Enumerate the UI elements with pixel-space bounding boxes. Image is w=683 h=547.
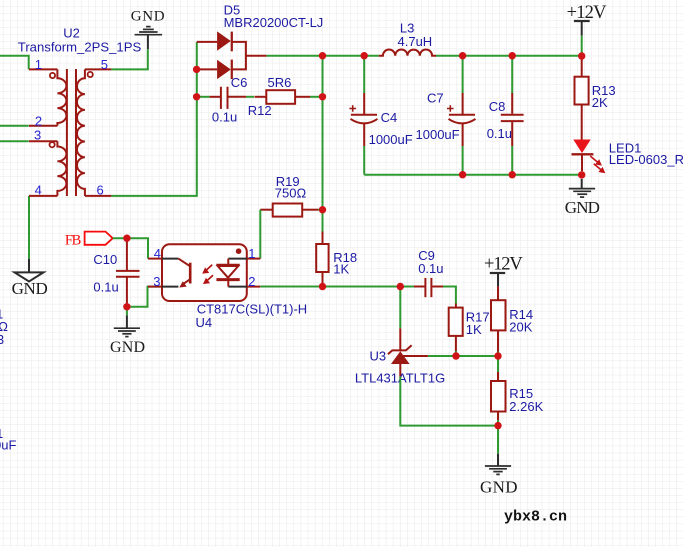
net label FB: [65, 232, 113, 249]
C9 reference label: [418, 248, 435, 263]
svg-text:LED-0603_RD: LED-0603_RD: [609, 152, 683, 167]
junction rail/C6 branch: [319, 52, 326, 59]
wire C8 bottom: [511, 146, 513, 175]
R14 reference label: [509, 307, 533, 322]
transformer U2: [29, 69, 111, 196]
U4 pin 1 dot: [236, 248, 242, 254]
wire R18 bottom: [322, 283, 324, 286]
svg-text:R12: R12: [248, 103, 272, 118]
R12 value label: [268, 75, 292, 90]
LED1 reference label: [609, 140, 642, 155]
capacitor C7 (polarized): [447, 93, 476, 146]
edge fragment label 10uF: [0, 438, 16, 453]
power +12V (top): [567, 3, 608, 36]
U2 pin 2 lead: [29, 125, 57, 127]
svg-text:FB: FB: [65, 233, 81, 249]
wire FB to U4 pin 4: [113, 238, 148, 258]
resistor R18: [316, 232, 328, 284]
resistor R15: [491, 356, 506, 426]
svg-text:3: 3: [34, 128, 41, 143]
svg-text:3: 3: [153, 274, 160, 289]
wire U2 pin 5 to ground: [111, 49, 147, 69]
U2 pin 5 lead: [85, 68, 112, 70]
wire bottom rail: [364, 174, 582, 176]
junction C8 top: [509, 52, 516, 59]
junction R18 bottom: [319, 283, 326, 290]
U2 pin number 1: [35, 57, 42, 72]
C7 value label: [416, 127, 460, 142]
junction C4 top: [361, 52, 368, 59]
junction R12 right: [319, 93, 326, 100]
wire U4 pin 2 net to C9: [260, 286, 414, 288]
R12 reference label: [248, 103, 272, 118]
capacitor C10: [116, 238, 140, 307]
wire C6 to R12: [246, 96, 254, 98]
U4 internal LED: [227, 259, 229, 265]
D5 upper anode lead: [197, 41, 217, 43]
ground GND below C10: [110, 315, 145, 356]
resistor R17: [449, 304, 463, 352]
svg-text:GND: GND: [110, 339, 145, 356]
svg-text:2: 2: [35, 113, 42, 128]
svg-text:4: 4: [154, 246, 161, 261]
svg-text:0.1u: 0.1u: [212, 110, 237, 125]
junction C7 bottom: [459, 171, 466, 178]
svg-text:10uF: 10uF: [0, 438, 16, 453]
junction R15 bottom: [494, 422, 501, 429]
power +12V (right): [484, 255, 523, 287]
ground GND below R15: [480, 454, 518, 497]
L3 reference label: [400, 20, 414, 35]
ground (open triangle) at U2 pin 4: [12, 259, 48, 298]
R17 reference label: [466, 310, 490, 325]
U4 pin 2 stub: [247, 286, 260, 288]
L3 value label: [398, 34, 433, 49]
R17 value label: [466, 322, 482, 337]
wire R15 to ground: [497, 426, 499, 454]
U2 phase dot pin1: [50, 73, 55, 78]
svg-text:C10: C10: [93, 252, 117, 267]
U4 pin number 1: [248, 246, 255, 261]
C10 value label: [93, 280, 118, 295]
U4 pin 3 inner lead: [162, 286, 178, 288]
U3 ref lead: [403, 355, 428, 357]
wire R14 bottom: [497, 352, 499, 357]
R14 value label: [509, 320, 532, 335]
edge fragment label 1: [0, 307, 3, 322]
U2 value label: [18, 40, 142, 55]
U2 pin number 6: [97, 183, 104, 198]
R19 reference label: [276, 174, 300, 189]
svg-text:Transform_2PS_1PS: Transform_2PS_1PS: [18, 40, 142, 55]
capacitor C9: [414, 278, 443, 297]
svg-text:GND: GND: [12, 279, 48, 298]
U2 reference label: [63, 26, 80, 41]
U2 pin number 2: [35, 113, 42, 128]
svg-text:2.26K: 2.26K: [509, 399, 543, 414]
edge fragment label ohm: [0, 319, 8, 334]
U3 anode lead: [399, 364, 401, 377]
svg-text:6: 6: [97, 183, 104, 198]
junction C7 top: [459, 52, 466, 59]
svg-text:20K: 20K: [509, 320, 532, 335]
capacitor C4 (polarized): [349, 93, 377, 146]
C8 reference label: [489, 99, 506, 114]
wire C10 bottom to U4 pin 3: [127, 287, 162, 307]
svg-text:5: 5: [101, 57, 108, 72]
svg-text:4: 4: [35, 183, 42, 198]
wire R19 right to branch: [318, 209, 323, 211]
svg-text:3: 3: [0, 332, 4, 347]
resistor R13: [575, 56, 589, 140]
wire U2 pin 4 to ground: [28, 196, 30, 259]
U4 value label: [197, 301, 308, 316]
junction LED1 bottom rail: [578, 171, 585, 178]
ground GND below LED1: [565, 179, 600, 217]
U4 pin 4 stub: [148, 258, 162, 260]
wire D5 output rail to +12V node: [266, 55, 378, 57]
C8 value label: [487, 126, 512, 141]
C4 value label: [369, 132, 413, 147]
R19 value label: [275, 186, 307, 201]
U2 phase dot pin5: [88, 72, 93, 77]
C7 reference label: [427, 90, 444, 105]
svg-text:1000uF: 1000uF: [369, 132, 413, 147]
svg-text:0.1u: 0.1u: [418, 261, 443, 276]
edge fragment label 3: [0, 332, 4, 347]
D5 reference label: [224, 3, 241, 18]
resistor R14: [491, 286, 506, 351]
U4 pin number 4: [154, 246, 161, 261]
junction D5 lower anode: [193, 66, 200, 73]
U4 reference label: [196, 315, 213, 330]
R13 reference label: [592, 83, 616, 98]
U4 pin 2 inner lead: [228, 286, 247, 288]
C4 reference label: [381, 110, 398, 125]
U2 primary winding bottom: [57, 141, 66, 196]
watermark ybx8.cn: [504, 509, 567, 526]
svg-text:GND: GND: [565, 198, 600, 217]
svg-text:ybx8.cn: ybx8.cn: [504, 509, 567, 526]
svg-text:0.1u: 0.1u: [93, 280, 118, 295]
U2 pin number 4: [35, 183, 42, 198]
R15 reference label: [509, 386, 533, 401]
LED1 value label: [609, 152, 683, 167]
optocoupler U4: [148, 244, 260, 301]
U2 pin 1 lead: [29, 68, 57, 70]
wire U3 cathode from C9 junction: [399, 287, 401, 329]
wire +12V to rail: [581, 36, 583, 56]
wire C10 to ground: [126, 307, 128, 316]
D5 upper diode triangle: [217, 31, 231, 50]
inductor L3: [379, 50, 436, 56]
capacitor C8: [501, 93, 524, 146]
svg-text:C4: C4: [381, 110, 398, 125]
wire C4 bottom: [363, 146, 365, 175]
U3 cathode bar: [388, 345, 412, 354]
junction R14 bottom: [494, 352, 501, 359]
wire C9 right to R17: [443, 287, 456, 304]
U4 pin 4 inner lead: [162, 258, 178, 260]
wire net to U2 pin 3: [0, 140, 29, 142]
capacitor C6: [210, 87, 246, 109]
LED LED1: [572, 140, 605, 173]
wire U3 anode to R15 bottom: [400, 377, 498, 426]
wire U2 pin 6 to D5 anodes: [111, 42, 196, 196]
U2 pin number 3: [34, 128, 41, 143]
edge fragment label 1 (lower): [0, 426, 3, 441]
svg-text:5R6: 5R6: [268, 75, 292, 90]
wire C6 left stub: [197, 96, 210, 98]
D5 lower cathode bar: [231, 60, 233, 80]
svg-text:C6: C6: [231, 75, 248, 90]
U4 pin 3 stub: [148, 286, 162, 288]
svg-text:2K: 2K: [592, 95, 608, 110]
svg-text:GND: GND: [131, 8, 165, 24]
svg-text:MBR20200CT-LJ: MBR20200CT-LJ: [224, 15, 324, 30]
svg-text:750Ω: 750Ω: [275, 186, 307, 201]
svg-text:+12V: +12V: [484, 255, 523, 275]
wire R19 left to U4 pin 1: [259, 210, 261, 259]
wire vertical branch rail to R18: [322, 56, 324, 232]
svg-text:CT817C(SL)(T1)-H: CT817C(SL)(T1)-H: [197, 301, 308, 316]
C10 reference label: [93, 252, 117, 267]
shunt regulator U3 LTL431: [388, 328, 428, 376]
U4 phototransistor: [178, 259, 190, 267]
junction C10 bottom: [123, 303, 130, 310]
svg-text:U4: U4: [196, 315, 213, 330]
wire R17 bottom: [455, 351, 457, 356]
svg-text:2: 2: [248, 274, 255, 289]
svg-text:1K: 1K: [466, 322, 482, 337]
R18 reference label: [333, 250, 357, 265]
svg-text:4.7uH: 4.7uH: [398, 34, 433, 49]
U2 pin number 5: [101, 57, 108, 72]
svg-text:1000uF: 1000uF: [416, 127, 460, 142]
R13 value label: [592, 95, 608, 110]
D5 cathode bracket: [232, 42, 267, 70]
ground GND (earth, flipped) above U2 pin 5: [131, 8, 165, 49]
svg-text:1K: 1K: [333, 261, 349, 276]
svg-text:U2: U2: [63, 26, 80, 41]
junction R19 right: [319, 206, 326, 213]
U2 pin 3 lead: [29, 140, 57, 142]
wire divider net U3 ref: [428, 355, 498, 357]
wire C4 top: [363, 56, 365, 93]
D5 upper cathode bar: [231, 32, 233, 52]
U2 core: [66, 69, 68, 196]
junction C9 left / U3 branch: [397, 283, 404, 290]
U4 pin number 2: [248, 274, 255, 289]
svg-text:C7: C7: [427, 90, 444, 105]
U3 triangle: [391, 351, 410, 364]
U3 cathode lead: [399, 328, 401, 350]
C6 reference label: [231, 75, 248, 90]
U4 pin number 3: [153, 274, 160, 289]
junction R17 bottom: [452, 352, 459, 359]
wire R12 right to rail branch: [310, 96, 323, 98]
U3 value label: [355, 371, 445, 386]
U2 primary winding top: [57, 69, 66, 125]
U2 phase dot pin3: [50, 142, 55, 147]
C9 value label: [418, 261, 443, 276]
D5 lower anode lead: [197, 68, 217, 70]
svg-text:0.1u: 0.1u: [487, 126, 512, 141]
U4 pin 1 inner lead: [228, 258, 247, 260]
svg-text:1: 1: [35, 57, 42, 72]
diode D5 MBR20200CT-LJ (dual): [197, 31, 267, 79]
resistor R19: [260, 204, 318, 217]
D5 value label: [224, 15, 324, 30]
svg-text:C8: C8: [489, 99, 506, 114]
svg-text:GND: GND: [480, 478, 518, 497]
U3 reference label: [370, 349, 387, 364]
U2 pin 6 lead: [85, 195, 112, 197]
U4 pin 1 stub: [247, 258, 260, 260]
U2 secondary winding: [77, 69, 85, 195]
wire C7 top: [462, 56, 464, 93]
wire C8 top: [511, 56, 513, 93]
wire net to U2 pin 1: [0, 56, 29, 70]
resistor R12: [255, 90, 311, 104]
wire net to U2 pin 2: [0, 125, 29, 127]
R15 value label: [509, 399, 543, 414]
junction C8 bottom: [509, 171, 516, 178]
C6 value label: [212, 110, 237, 125]
svg-text:U3: U3: [370, 349, 387, 364]
U2 pin 4 lead: [29, 195, 57, 197]
junction C6 left: [193, 93, 200, 100]
svg-text:1: 1: [248, 246, 255, 261]
D5 lower diode triangle: [217, 60, 231, 79]
wire C7 bottom: [462, 146, 464, 175]
R18 value label: [333, 261, 349, 276]
junction FB / C10 top: [123, 235, 130, 242]
junction +12V rail: [578, 52, 585, 59]
U4 light arrows: [204, 265, 213, 273]
